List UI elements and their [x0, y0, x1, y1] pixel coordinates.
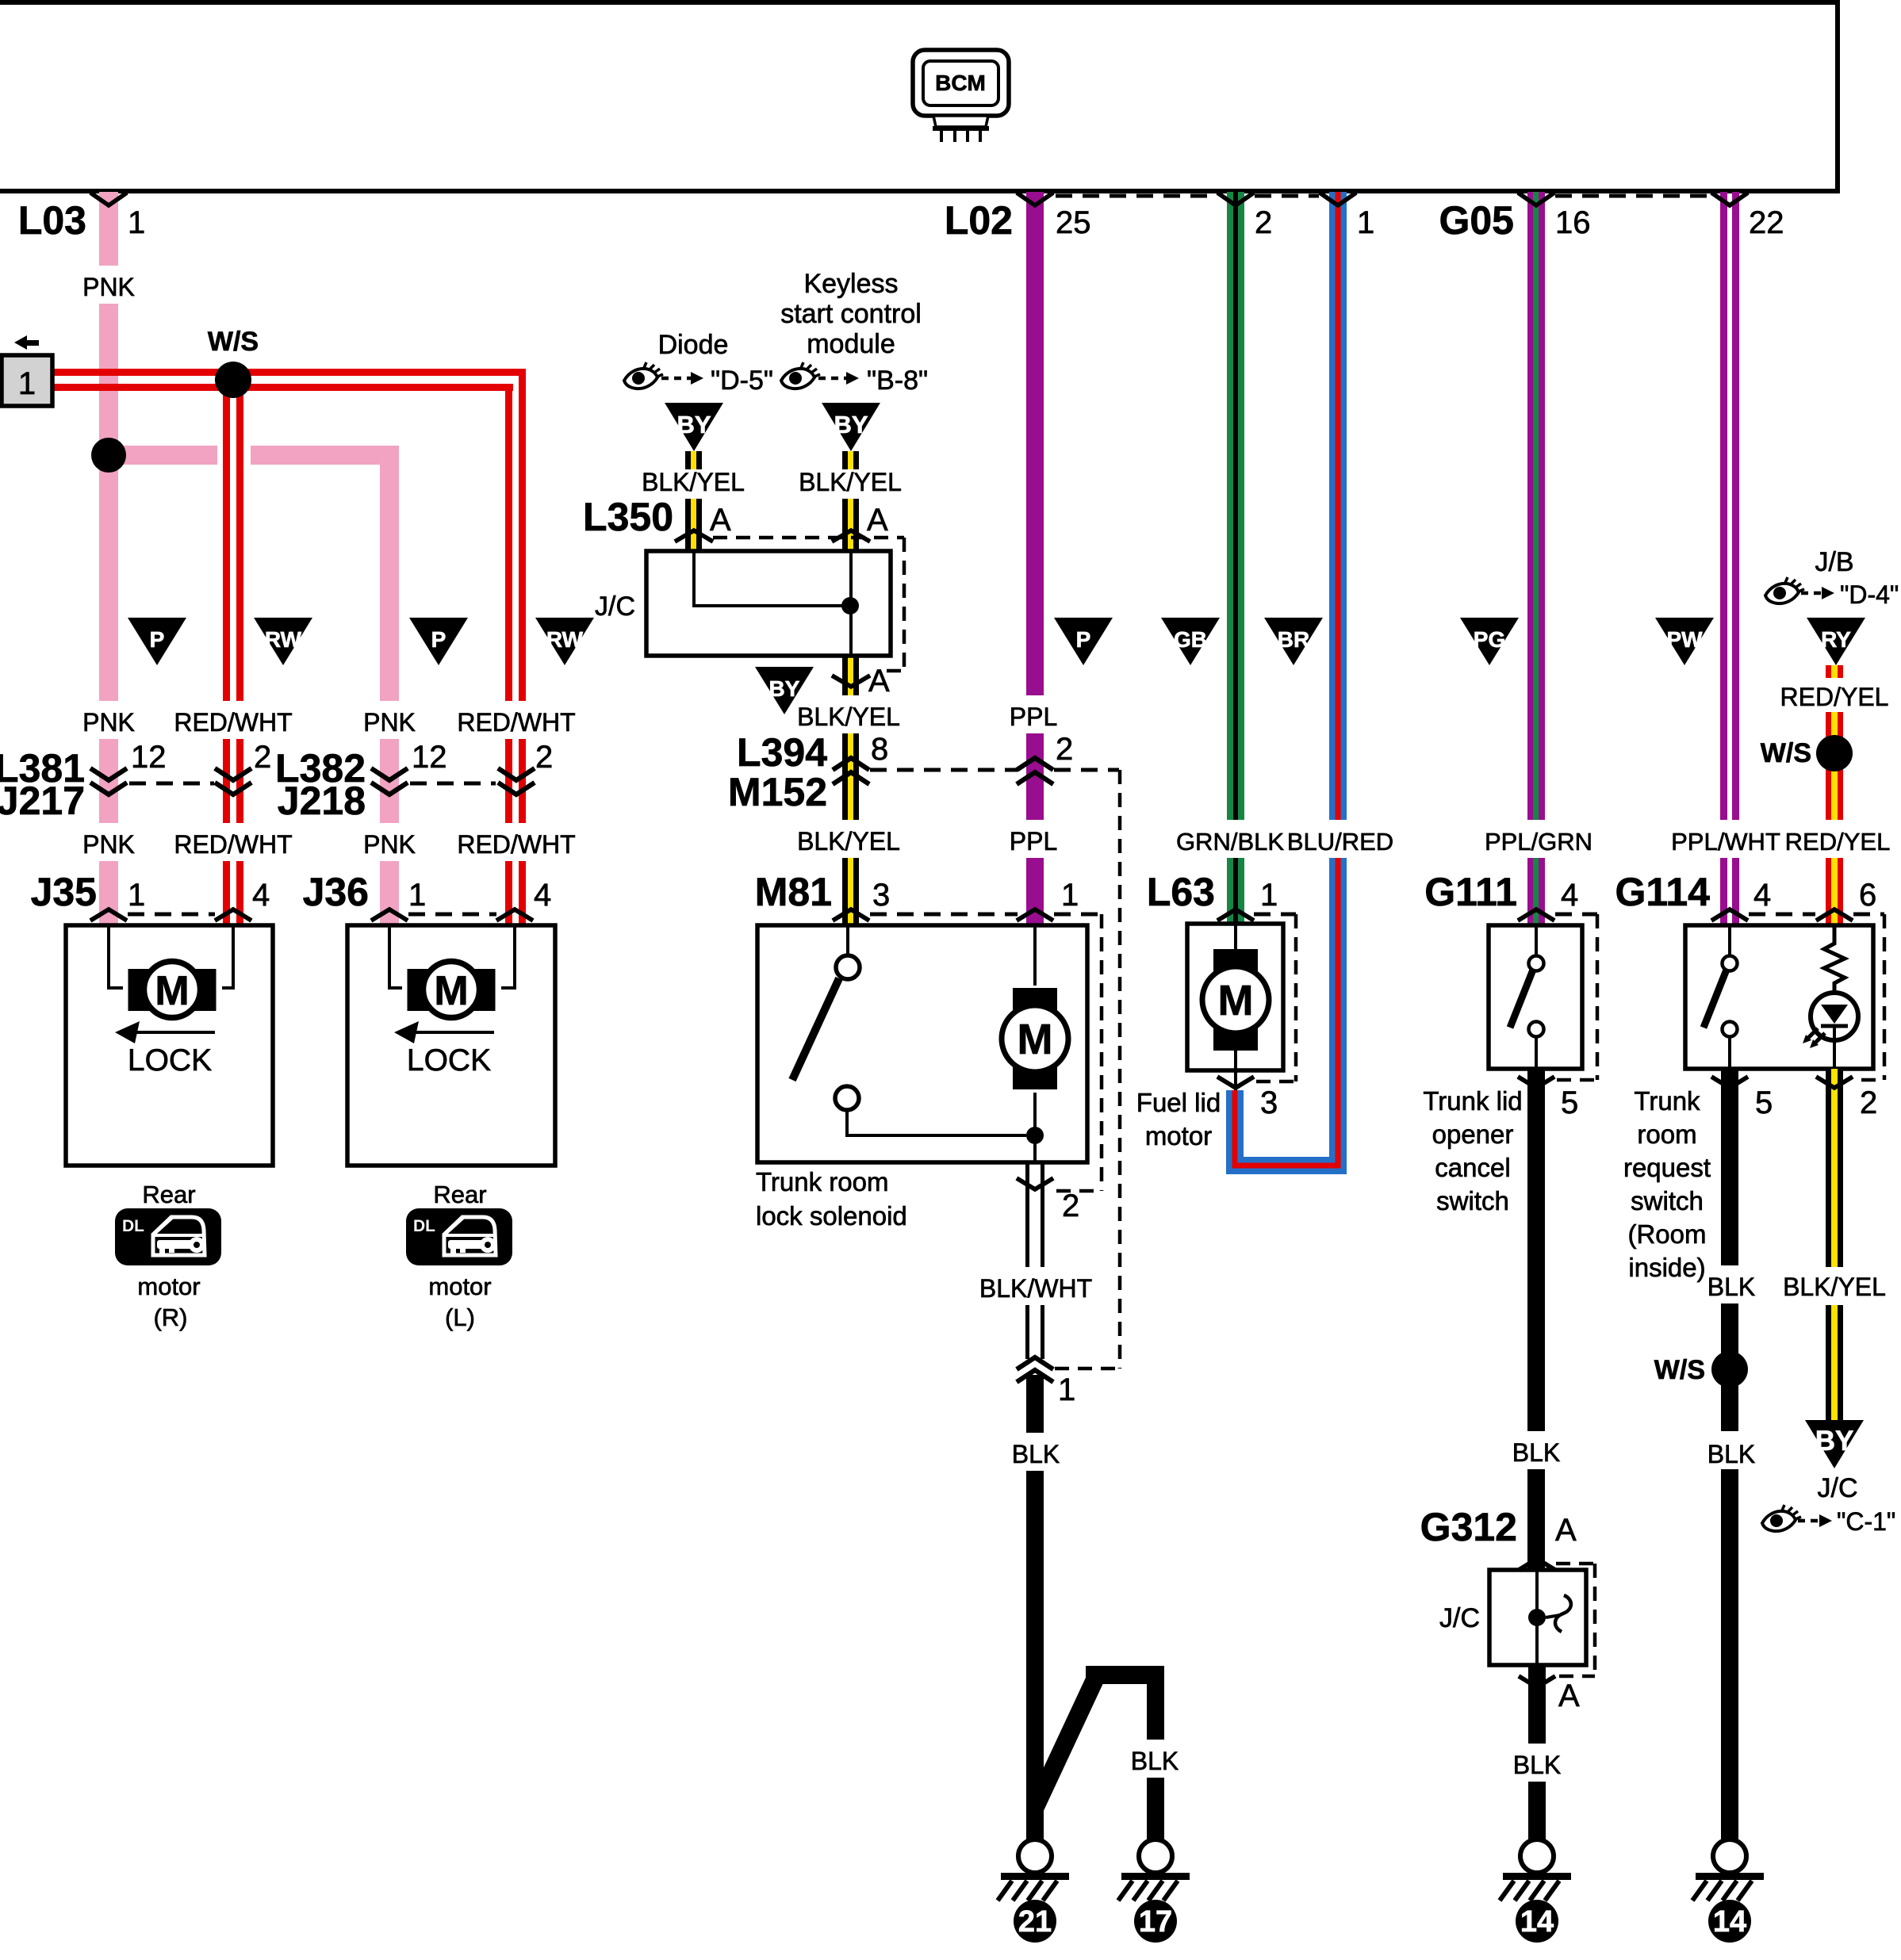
svg-text:module: module	[807, 329, 895, 359]
wire PPL/GRN G05-16 to G111-4	[1527, 192, 1545, 820]
svg-text:inside): inside)	[1628, 1253, 1705, 1282]
svg-text:L02: L02	[945, 198, 1013, 243]
svg-text:PPL/WHT: PPL/WHT	[1671, 828, 1780, 856]
svg-text:PNK: PNK	[82, 830, 135, 859]
svg-text:Trunk lid: Trunk lid	[1423, 1086, 1522, 1116]
svg-text:J/B: J/B	[1815, 547, 1853, 577]
wire code triangle P (PPL)	[1054, 618, 1113, 665]
svg-text:1: 1	[128, 878, 145, 913]
svg-text:LOCK: LOCK	[407, 1043, 491, 1078]
wire RED/WHT to J35-4 (vertical)	[223, 380, 230, 701]
wire BLK/YEL from keyless module through L350 to M81-3	[842, 451, 859, 469]
wire BLK G111-5 to G312	[1527, 1069, 1545, 1431]
svg-text:G312: G312	[1420, 1505, 1517, 1549]
motor M inside M81	[1033, 927, 1037, 986]
svg-text:W/S: W/S	[208, 327, 259, 357]
svg-text:A: A	[867, 503, 888, 538]
wire GRN/BLK L02-2 to L63-1	[1227, 192, 1244, 820]
svg-text:"C-1": "C-1"	[1837, 1507, 1895, 1536]
svg-text:M: M	[1218, 977, 1254, 1024]
wire RED/YEL from J/B funnel to G114-6	[1826, 665, 1843, 678]
ground symbol (14, right)	[1713, 1839, 1746, 1873]
svg-text:P: P	[431, 627, 447, 652]
svg-text:BR: BR	[1278, 627, 1309, 652]
svg-text:RED/YEL: RED/YEL	[1785, 828, 1891, 856]
svg-text:BY: BY	[1815, 1426, 1854, 1457]
svg-text:J218: J218	[278, 779, 366, 823]
svg-text:14: 14	[1713, 1905, 1746, 1939]
svg-text:5: 5	[1561, 1085, 1578, 1120]
fuel lid motor box L63	[1187, 924, 1283, 1070]
svg-text:G111: G111	[1424, 870, 1517, 914]
svg-text:RED/WHT: RED/WHT	[457, 830, 575, 859]
svg-text:4: 4	[1561, 878, 1578, 913]
svg-text:Trunk room: Trunk room	[756, 1167, 888, 1196]
svg-text:BLK: BLK	[1513, 1751, 1561, 1779]
G312 connector dashed outline	[1556, 1562, 1595, 1566]
svg-text:GRN/BLK: GRN/BLK	[1176, 828, 1284, 856]
svg-text:DL: DL	[413, 1217, 435, 1235]
connector L63 pin 3	[1217, 1077, 1254, 1088]
wire PPL/WHT G05-22 to G114-4	[1720, 192, 1727, 820]
BY funnel from keyless module	[822, 403, 880, 451]
svg-text:BLK: BLK	[1512, 1438, 1560, 1467]
wire BLU/RED L02-1 to L63-3 (U shape)	[1235, 192, 1338, 1166]
BCM module box	[0, 2, 1838, 191]
svg-text:M81: M81	[755, 870, 832, 914]
svg-text:W/S: W/S	[1761, 738, 1811, 768]
wire PPL L02-25 to M81-1	[1026, 192, 1044, 695]
svg-text:switch: switch	[1436, 1186, 1509, 1215]
svg-text:PPL: PPL	[1010, 702, 1057, 731]
svg-text:L350: L350	[583, 495, 673, 539]
trunk room request switch box G114	[1685, 925, 1873, 1069]
junction block J/C G312 box	[1489, 1570, 1586, 1665]
wires inside L350 J/C with junction dot	[694, 553, 851, 654]
svg-text:J/C: J/C	[595, 591, 635, 622]
svg-text:4: 4	[252, 878, 270, 913]
svg-text:RED/WHT: RED/WHT	[174, 830, 292, 859]
connector G312 pin A (output)	[1519, 1676, 1555, 1687]
svg-text:(R): (R)	[153, 1303, 187, 1331]
connector G111 pin 5	[1518, 1077, 1554, 1088]
connector L02 pins 25,2,1 at BCM	[1056, 194, 1217, 198]
svg-text:1: 1	[1357, 205, 1374, 240]
svg-text:L03: L03	[18, 198, 86, 243]
node W/S junction dot on BLK	[1711, 1351, 1748, 1388]
connector M152 pin 1	[1017, 1357, 1053, 1369]
wire code triangle GB	[1161, 618, 1220, 665]
BCM icon U1	[913, 50, 1009, 142]
ground symbol (17)	[1139, 1839, 1172, 1873]
svg-text:switch: switch	[1631, 1186, 1704, 1215]
eye reference to C-1	[1762, 1505, 1801, 1531]
switch inside M81	[846, 927, 849, 955]
svg-text:A: A	[710, 503, 731, 538]
svg-text:2: 2	[254, 740, 271, 775]
svg-text:A: A	[868, 664, 890, 699]
chevron overlays at L381/L382 row	[90, 768, 127, 780]
svg-text:22: 22	[1749, 205, 1784, 240]
svg-text:request: request	[1623, 1153, 1711, 1182]
trunk lid opener cancel switch box G111	[1489, 925, 1582, 1069]
svg-text:Keyless: Keyless	[803, 269, 898, 299]
LOCK arrow in J36	[412, 1031, 494, 1034]
resistor inside G114	[1824, 927, 1845, 993]
wire code triangle P (PNK J35)	[128, 618, 186, 665]
motor M in J36	[408, 969, 431, 1011]
svg-text:W/S: W/S	[1654, 1355, 1705, 1385]
svg-text:PNK: PNK	[363, 708, 416, 737]
svg-text:GB: GB	[1174, 627, 1207, 652]
svg-text:Trunk: Trunk	[1634, 1086, 1700, 1116]
chevron overlays at G312	[1519, 1559, 1555, 1570]
svg-text:Fuel lid: Fuel lid	[1136, 1088, 1221, 1117]
switch inside G111	[1535, 925, 1538, 956]
svg-text:BLK/YEL: BLK/YEL	[797, 702, 900, 731]
svg-text:14: 14	[1520, 1905, 1554, 1939]
svg-text:G114: G114	[1615, 870, 1710, 914]
svg-text:"D-4": "D-4"	[1840, 580, 1899, 609]
svg-text:PW: PW	[1666, 627, 1703, 652]
wire BLK to ground 21	[1026, 1375, 1044, 1433]
svg-text:BLK: BLK	[1131, 1747, 1179, 1775]
svg-text:5: 5	[1755, 1085, 1773, 1120]
svg-text:J217: J217	[0, 779, 85, 823]
M152 connector dashed outline around M81	[1100, 914, 1104, 1191]
motor M in J35	[128, 969, 151, 1011]
svg-text:2: 2	[1062, 1189, 1079, 1223]
rear door lock motor (R) box J35	[66, 925, 273, 1166]
wire code triangle RW (RED/WHT J36)	[535, 618, 594, 665]
wire inside J36 to motor	[389, 927, 515, 988]
svg-text:12: 12	[131, 740, 167, 775]
svg-text:PPL: PPL	[1010, 827, 1057, 856]
chevron overlays at BCM pins	[90, 193, 127, 205]
rear door lock motor (L) box J36	[347, 925, 555, 1166]
svg-text:(Room: (Room	[1627, 1219, 1706, 1249]
BY funnel to J/C C-1	[1805, 1420, 1864, 1468]
svg-text:M: M	[1018, 1016, 1053, 1063]
svg-text:16: 16	[1555, 205, 1591, 240]
svg-text:1: 1	[128, 205, 145, 240]
wire code triangle BR	[1264, 618, 1323, 665]
svg-text:"D-5": "D-5"	[711, 366, 773, 396]
svg-text:J35: J35	[31, 870, 97, 914]
svg-text:1: 1	[1061, 878, 1079, 913]
wire BLK G114-5 to ground 14	[1721, 1069, 1738, 1265]
svg-text:PG: PG	[1474, 627, 1505, 652]
svg-text:2: 2	[1056, 732, 1073, 767]
wire + junction dot inside G312	[1535, 1571, 1539, 1663]
L63 connector dashed outline	[1294, 914, 1298, 1081]
svg-text:Diode: Diode	[658, 330, 729, 360]
connector M81 pin 2	[1017, 1178, 1053, 1189]
svg-text:PNK: PNK	[82, 708, 135, 737]
svg-text:4: 4	[1753, 878, 1771, 913]
svg-text:RED/WHT: RED/WHT	[457, 708, 575, 737]
svg-text:RY: RY	[1821, 627, 1851, 652]
svg-text:PNK: PNK	[82, 273, 135, 301]
node: PNK junction dot	[91, 438, 126, 473]
wire RED/WHT horizontal from connector 1	[52, 369, 526, 376]
svg-text:3: 3	[1260, 1085, 1278, 1120]
svg-text:G05: G05	[1439, 198, 1514, 243]
svg-text:P: P	[1076, 627, 1091, 652]
svg-text:BLK/YEL: BLK/YEL	[797, 827, 900, 856]
svg-text:DL: DL	[122, 1217, 144, 1235]
wire code triangle BY	[755, 667, 814, 714]
svg-text:1: 1	[1260, 878, 1278, 913]
RY funnel from J/B	[1807, 618, 1865, 665]
svg-text:M152: M152	[728, 770, 827, 814]
wire inside J35 to motor	[109, 927, 233, 988]
svg-text:2: 2	[1255, 205, 1272, 240]
svg-text:3: 3	[872, 878, 890, 913]
connector G114 pins 5,2	[1711, 1077, 1748, 1088]
LOCK arrow in J35	[133, 1031, 215, 1034]
svg-text:12: 12	[412, 740, 447, 775]
LED inside G114	[1811, 993, 1858, 1040]
svg-text:BLK: BLK	[1707, 1440, 1755, 1468]
svg-text:Rear: Rear	[433, 1181, 486, 1208]
svg-text:M: M	[434, 968, 468, 1014]
svg-text:room: room	[1637, 1120, 1696, 1149]
wire code triangle RW (RED/WHT J35)	[254, 618, 312, 665]
svg-text:RW: RW	[265, 627, 302, 652]
node W/S junction dot on RED/YEL	[1816, 735, 1853, 771]
wire code triangle PW	[1655, 618, 1714, 665]
wire BLK/YEL from diode to L350	[685, 451, 702, 469]
svg-text:start control: start control	[780, 299, 922, 329]
svg-text:21: 21	[1018, 1905, 1052, 1939]
svg-text:L394: L394	[737, 730, 827, 775]
svg-text:BY: BY	[676, 411, 711, 438]
svg-text:PNK: PNK	[363, 830, 416, 859]
junction block J/C L350 box	[646, 551, 891, 656]
svg-text:P: P	[150, 627, 165, 652]
chevron overlays at component pin row	[90, 909, 127, 921]
svg-text:BY: BY	[769, 676, 800, 701]
node W/S junction dot on RED/WHT	[215, 362, 251, 398]
svg-text:BLK/WHT: BLK/WHT	[979, 1274, 1092, 1303]
BY funnel from diode	[665, 403, 723, 451]
wire BLK G312 to ground 14	[1528, 1665, 1546, 1744]
svg-text:J/C: J/C	[1818, 1473, 1858, 1503]
svg-text:BLK/YEL: BLK/YEL	[799, 468, 902, 496]
wire PNK L03-1 to J35-1 (vertical)	[99, 192, 118, 266]
svg-text:1: 1	[1058, 1372, 1075, 1407]
svg-text:Rear: Rear	[142, 1181, 195, 1208]
svg-text:lock solenoid: lock solenoid	[756, 1201, 907, 1231]
svg-text:BLK/YEL: BLK/YEL	[1783, 1273, 1886, 1301]
svg-text:L63: L63	[1147, 870, 1215, 914]
svg-text:LOCK: LOCK	[128, 1043, 212, 1078]
svg-text:A: A	[1558, 1679, 1580, 1713]
svg-text:RED/YEL: RED/YEL	[1780, 683, 1889, 711]
svg-text:RW: RW	[546, 627, 584, 652]
svg-text:cancel: cancel	[1435, 1153, 1510, 1182]
svg-text:BLK: BLK	[1707, 1273, 1755, 1301]
motor M inside L63	[1234, 925, 1237, 951]
svg-text:BLK/YEL: BLK/YEL	[642, 468, 745, 496]
svg-text:BY: BY	[834, 411, 868, 438]
svg-text:J36: J36	[303, 870, 369, 914]
svg-text:J/C: J/C	[1439, 1603, 1480, 1633]
trunk room lock solenoid box M81	[757, 925, 1087, 1162]
svg-text:RED/WHT: RED/WHT	[174, 708, 292, 737]
svg-text:2: 2	[1860, 1085, 1877, 1120]
svg-text:BLK: BLK	[1012, 1440, 1060, 1468]
G114 connector dashed outline	[1883, 914, 1887, 1080]
off-page connector 1 (gray box with arrow)	[14, 335, 39, 350]
connector L03 pin 1 at BCM	[90, 193, 127, 205]
svg-text:1: 1	[408, 878, 426, 913]
svg-text:6: 6	[1859, 878, 1876, 913]
switch inside G114	[1728, 925, 1731, 956]
svg-text:BCM: BCM	[935, 71, 986, 95]
wire RED/WHT to J36-4 (vertical)	[505, 384, 512, 701]
connector L350 pin A (output)	[832, 676, 870, 687]
node junction dot inside M81	[1026, 1127, 1044, 1144]
svg-text:"B-8": "B-8"	[867, 366, 928, 396]
svg-text:17: 17	[1139, 1905, 1172, 1939]
wire code triangle PG	[1460, 618, 1519, 665]
svg-text:M: M	[155, 968, 189, 1014]
svg-text:motor: motor	[428, 1273, 491, 1300]
dashed connector line (right, M152)	[1118, 770, 1122, 1369]
wire BLK/YEL G114-2 to J/C funnel	[1826, 1069, 1843, 1267]
connector G05 pins 16,22 at BCM	[1555, 194, 1711, 198]
wire code triangle P (PNK J36)	[409, 618, 468, 665]
svg-text:4: 4	[534, 878, 551, 913]
svg-text:2: 2	[535, 740, 553, 775]
svg-text:(L): (L)	[445, 1303, 475, 1331]
svg-text:opener: opener	[1432, 1120, 1514, 1149]
ground symbol (14, left)	[1520, 1839, 1554, 1873]
chevron overlays at L394/M152 row	[833, 758, 869, 770]
svg-text:A: A	[1555, 1513, 1577, 1548]
G111 connector dashed outline	[1596, 914, 1600, 1080]
svg-text:8: 8	[871, 732, 888, 767]
chevron overlays at L350	[675, 530, 713, 542]
svg-text:BLU/RED: BLU/RED	[1287, 828, 1393, 856]
chevron overlays at component bottom pins	[1217, 1077, 1254, 1088]
ground symbol (21)	[1018, 1839, 1052, 1873]
svg-text:1: 1	[18, 366, 36, 401]
wire PNK branch to J36-1: horizontal + vertical	[380, 446, 399, 701]
wire BLK branch to ground 17	[1035, 1675, 1097, 1808]
svg-text:motor: motor	[137, 1273, 200, 1300]
wire BLK/WHT below M81	[1025, 1162, 1029, 1267]
svg-text:25: 25	[1056, 205, 1091, 240]
svg-text:PPL/GRN: PPL/GRN	[1485, 828, 1592, 856]
svg-text:motor: motor	[1145, 1121, 1212, 1150]
